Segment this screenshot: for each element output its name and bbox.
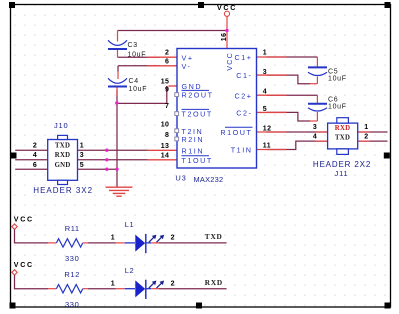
svg-text:2: 2 — [171, 280, 176, 287]
svg-text:4: 4 — [313, 134, 318, 141]
svg-text:3: 3 — [263, 69, 267, 76]
svg-text:4: 4 — [263, 89, 267, 96]
svg-text:HEADER 2X2: HEADER 2X2 — [313, 160, 371, 169]
svg-text:C2-: C2- — [236, 109, 252, 118]
svg-text:L2: L2 — [125, 266, 135, 275]
svg-text:R2OUT: R2OUT — [182, 91, 214, 100]
svg-text:L1: L1 — [125, 220, 135, 229]
svg-text:10uF: 10uF — [129, 86, 148, 93]
svg-text:1: 1 — [80, 142, 84, 149]
svg-text:10: 10 — [161, 122, 170, 129]
svg-text:R1OUT: R1OUT — [220, 128, 252, 137]
svg-text:7: 7 — [165, 103, 169, 110]
svg-text:11: 11 — [263, 143, 271, 150]
svg-text:15: 15 — [161, 78, 170, 85]
svg-text:TXD: TXD — [335, 134, 350, 141]
svg-text:8: 8 — [165, 132, 169, 139]
svg-text:10uF: 10uF — [328, 104, 347, 111]
svg-text:C1+: C1+ — [234, 53, 252, 62]
svg-text:R12: R12 — [64, 270, 80, 279]
svg-text:4: 4 — [33, 152, 37, 159]
svg-text:C2+: C2+ — [234, 91, 252, 100]
svg-text:1: 1 — [111, 280, 116, 287]
svg-text:VCC: VCC — [14, 261, 34, 269]
svg-text:1: 1 — [364, 124, 369, 131]
svg-text:GND: GND — [55, 162, 71, 169]
svg-text:330: 330 — [65, 254, 79, 263]
svg-text:TXD: TXD — [205, 232, 223, 241]
svg-text:3: 3 — [80, 152, 84, 159]
svg-text:2: 2 — [33, 142, 37, 149]
svg-text:6: 6 — [33, 162, 37, 169]
svg-text:16: 16 — [221, 33, 228, 42]
svg-text:T2OUT: T2OUT — [182, 110, 213, 119]
svg-text:RXD: RXD — [335, 125, 351, 132]
svg-text:12: 12 — [263, 126, 272, 133]
svg-text:1: 1 — [111, 235, 116, 242]
svg-text:V-: V- — [182, 62, 192, 71]
svg-text:VCC: VCC — [225, 52, 234, 71]
svg-text:MAX232: MAX232 — [194, 175, 224, 184]
svg-text:C3: C3 — [128, 42, 138, 49]
svg-text:T1IN: T1IN — [231, 146, 253, 155]
svg-text:2: 2 — [171, 235, 176, 242]
svg-text:3: 3 — [313, 124, 318, 131]
svg-text:10uF: 10uF — [328, 75, 347, 82]
svg-text:R11: R11 — [65, 224, 80, 233]
svg-text:RXD: RXD — [55, 152, 71, 159]
svg-text:5: 5 — [80, 162, 84, 169]
svg-text:VCC: VCC — [14, 215, 34, 223]
svg-text:HEADER 3X2: HEADER 3X2 — [33, 186, 93, 195]
svg-text:5: 5 — [263, 106, 267, 113]
svg-text:RXD: RXD — [205, 278, 223, 287]
svg-text:U3: U3 — [175, 173, 186, 182]
svg-text:2: 2 — [364, 134, 369, 141]
svg-text:1: 1 — [263, 50, 267, 57]
svg-text:J11: J11 — [335, 169, 349, 178]
svg-text:T1OUT: T1OUT — [182, 156, 213, 165]
svg-text:2: 2 — [165, 50, 169, 57]
svg-text:J10: J10 — [54, 121, 69, 130]
svg-text:13: 13 — [161, 143, 170, 150]
svg-text:9: 9 — [165, 86, 169, 93]
svg-text:R1IN: R1IN — [182, 146, 205, 155]
svg-text:6: 6 — [165, 58, 169, 65]
svg-text:10uF: 10uF — [128, 52, 147, 59]
svg-text:TXD: TXD — [55, 142, 70, 149]
svg-text:330: 330 — [65, 300, 79, 309]
svg-text:C1-: C1- — [236, 71, 252, 80]
svg-text:VCC: VCC — [217, 4, 237, 12]
svg-text:14: 14 — [161, 153, 170, 160]
svg-text:C4: C4 — [129, 78, 139, 85]
svg-text:R2IN: R2IN — [182, 135, 205, 144]
